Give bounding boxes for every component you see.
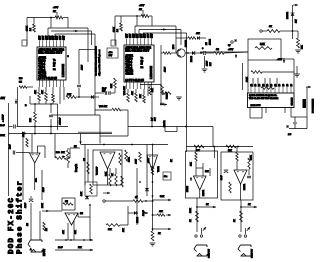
svg-text:12V: 12V — [296, 19, 298, 23]
svg-text:16V: 16V — [137, 33, 139, 38]
svg-text:4.7uF: 4.7uF — [207, 60, 209, 66]
svg-text:(8): (8) — [53, 63, 56, 65]
svg-text:x: x — [235, 40, 237, 42]
svg-text:22K: 22K — [191, 162, 193, 166]
svg-text:100K: 100K — [190, 208, 192, 213]
svg-text:16V: 16V — [109, 55, 113, 57]
svg-text:2 5: 2 5 — [288, 134, 292, 136]
svg-text:VDD CL RS SET VSS CL2 RS2: VDD CL RS SET VSS CL2 RS2 — [249, 98, 279, 100]
svg-text:1N914: 1N914 — [191, 55, 193, 62]
svg-text:1K: 1K — [158, 233, 161, 235]
svg-text:OTA-1: OTA-1 — [125, 61, 132, 64]
svg-text:16V: 16V — [155, 117, 157, 121]
svg-text:47K: 47K — [36, 178, 38, 182]
svg-text:V+: V+ — [141, 58, 144, 60]
svg-text:10uF: 10uF — [10, 144, 12, 149]
svg-text:+15V: +15V — [277, 59, 283, 61]
svg-text:.0068uF: .0068uF — [60, 117, 62, 125]
svg-text:+15V: +15V — [148, 158, 150, 163]
svg-text:LM13600N: LM13600N — [149, 66, 153, 79]
svg-text:AMP1 DIO1 AMP2 DIO2: AMP1 DIO1 AMP2 DIO2 — [38, 48, 64, 51]
svg-text:OTA-2: OTA-2 — [38, 68, 45, 71]
svg-text:4.7uF: 4.7uF — [25, 202, 27, 208]
svg-text:Depth: Depth — [74, 164, 78, 172]
svg-text:ABUF1: ABUF1 — [38, 57, 46, 60]
svg-text:10K: 10K — [140, 94, 142, 98]
svg-text:LM741: LM741 — [244, 183, 246, 190]
svg-text:47K: 47K — [75, 230, 77, 234]
svg-text:VR4 4.7K: VR4 4.7K — [124, 86, 126, 95]
svg-text:IN: IN — [141, 64, 144, 66]
svg-text:16V: 16V — [60, 35, 62, 40]
svg-text:OUTPUT: OUTPUT — [252, 248, 254, 258]
svg-text:INPUT: INPUT — [43, 248, 46, 256]
svg-text:1K: 1K — [139, 9, 142, 11]
svg-text:1K: 1K — [112, 173, 114, 176]
svg-text:1.5K: 1.5K — [67, 94, 72, 96]
svg-text:16V: 16V — [64, 35, 66, 40]
svg-text:16V: 16V — [134, 33, 136, 38]
svg-text:16: 16 — [259, 83, 261, 86]
svg-text:10K: 10K — [108, 229, 112, 231]
svg-text:2N5458: 2N5458 — [186, 39, 188, 47]
svg-text:A: A — [30, 248, 32, 251]
svg-text:47K: 47K — [132, 91, 134, 95]
svg-text:1K: 1K — [206, 204, 209, 206]
svg-text:INB1 OT1 INB2 OT2 V: INB1 OT1 INB2 OT2 V — [125, 50, 149, 52]
svg-text:22K: 22K — [30, 118, 32, 122]
svg-text:INTEN: INTEN — [187, 185, 189, 192]
svg-text:47K: 47K — [159, 211, 163, 213]
svg-text:10K: 10K — [302, 45, 304, 49]
svg-text:100K: 100K — [23, 132, 25, 137]
svg-text:B2: B2 — [141, 67, 144, 69]
svg-text:Q1 D1 CLK1 R1 S1 Q2 D2 CL: Q1 D1 CLK1 R1 S1 Q2 D2 CL — [249, 95, 278, 97]
svg-text:1 3 5 7 9 11 13 15: 1 3 5 7 9 11 13 15 — [38, 78, 57, 80]
svg-text:5.6K: 5.6K — [260, 44, 265, 46]
svg-text:LM741: LM741 — [203, 189, 205, 196]
svg-text:16: 16 — [279, 83, 281, 86]
svg-text:100K: 100K — [251, 155, 253, 160]
svg-text:GND12: GND12 — [125, 73, 133, 75]
svg-text:16V: 16V — [126, 33, 128, 38]
svg-text:13 11 9 7 5: 13 11 9 7 5 — [251, 105, 262, 107]
svg-text:MPS: MPS — [173, 44, 175, 49]
svg-text:16V: 16V — [152, 33, 154, 38]
svg-text:1M: 1M — [27, 223, 29, 226]
svg-text:(8): (8) — [141, 61, 144, 63]
svg-text:+15V: +15V — [139, 5, 145, 7]
svg-text:AMP1 DIO1 AMP2 DIO2: AMP1 DIO1 AMP2 DIO2 — [125, 46, 151, 49]
svg-text:16: 16 — [263, 83, 265, 86]
svg-text:LM13600N: LM13600N — [61, 64, 65, 77]
svg-text:47K: 47K — [35, 90, 37, 94]
svg-text:VB1-2: VB1-2 — [38, 66, 45, 68]
svg-text:16V: 16V — [144, 33, 146, 38]
svg-text:1N4742: 1N4742 — [287, 11, 289, 19]
svg-text:V+: V+ — [53, 60, 56, 62]
svg-text:16V: 16V — [210, 62, 212, 66]
svg-text:1K: 1K — [234, 219, 236, 222]
svg-text:100K: 100K — [0, 135, 5, 137]
svg-text:16: 16 — [275, 83, 277, 86]
svg-text:10uF: 10uF — [58, 247, 63, 249]
svg-text:+15V: +15V — [228, 49, 234, 51]
svg-text:VR1 10K: VR1 10K — [99, 106, 108, 108]
svg-text:DBUF2: DBUF2 — [125, 70, 133, 72]
svg-text:D5: D5 — [206, 42, 208, 45]
svg-text:ABUF1: ABUF1 — [125, 55, 133, 58]
svg-text:47K: 47K — [196, 33, 200, 35]
svg-text:1M: 1M — [46, 228, 48, 231]
svg-text:16: 16 — [267, 83, 269, 86]
svg-text:16: 16 — [291, 83, 293, 86]
svg-text:1M: 1M — [65, 201, 68, 203]
svg-text:B2: B2 — [53, 69, 56, 71]
svg-text:16: 16 — [271, 83, 273, 86]
svg-text:INB1 OT1 INB2 OT2 V: INB1 OT1 INB2 OT2 V — [38, 52, 62, 54]
svg-text:16V: 16V — [148, 33, 150, 38]
svg-text:1 3 5 7 9 11 13 15: 1 3 5 7 9 11 13 15 — [125, 80, 144, 82]
svg-text:1M: 1M — [216, 49, 219, 51]
svg-text:1.5K: 1.5K — [81, 191, 83, 196]
svg-text:-15V: -15V — [0, 98, 5, 100]
svg-text:CD4013: CD4013 — [292, 97, 294, 106]
svg-text:1.2: 1.2 — [30, 27, 32, 31]
svg-text:270K: 270K — [27, 26, 29, 31]
svg-text:47uF: 47uF — [43, 187, 45, 192]
svg-text:1K: 1K — [171, 159, 173, 162]
svg-text:3.3K: 3.3K — [111, 83, 113, 88]
svg-text:1M: 1M — [80, 213, 83, 215]
svg-text:16V: 16V — [130, 33, 132, 38]
svg-text:10uF: 10uF — [0, 125, 5, 127]
svg-text:1K: 1K — [135, 197, 138, 199]
svg-text:TL022CP: TL022CP — [97, 166, 99, 175]
svg-text:3.3K: 3.3K — [106, 171, 108, 176]
svg-text:16V: 16V — [46, 35, 48, 40]
svg-text:chips not the 13700 pin out: chips not the 13700 pin out — [98, 49, 101, 76]
svg-text:9V: 9V — [228, 45, 231, 47]
svg-text:16V: 16V — [57, 35, 59, 40]
svg-text:5.6K: 5.6K — [160, 196, 165, 198]
svg-text:+ 4.7uF: + 4.7uF — [3, 114, 5, 122]
svg-text:16V: 16V — [39, 35, 41, 40]
svg-text:560: 560 — [19, 78, 23, 80]
svg-text:4.7u: 4.7u — [109, 52, 113, 54]
svg-text:16V: 16V — [53, 35, 55, 40]
svg-text:10K: 10K — [152, 88, 154, 92]
svg-text:16V: 16V — [50, 35, 52, 40]
svg-text:1N914: 1N914 — [137, 216, 139, 223]
svg-text:DBIAS: DBIAS — [125, 58, 133, 61]
svg-text:+: + — [202, 48, 204, 50]
svg-text:100K: 100K — [129, 157, 131, 162]
svg-text:16: 16 — [283, 83, 285, 86]
svg-text:FOOTSWITCH: FOOTSWITCH — [313, 99, 315, 113]
svg-text:4.7uF: 4.7uF — [82, 64, 84, 70]
svg-text:16: 16 — [255, 83, 257, 86]
svg-text:47K: 47K — [42, 90, 44, 94]
svg-text:+15V: +15V — [53, 7, 59, 9]
svg-text:10uF: 10uF — [221, 175, 223, 180]
svg-text:.0047: .0047 — [136, 158, 138, 164]
svg-text:4.7uF: 4.7uF — [165, 66, 167, 72]
svg-text:1K: 1K — [53, 11, 56, 13]
svg-text:16V: 16V — [141, 33, 143, 38]
svg-text:DBIAS: DBIAS — [38, 60, 46, 63]
svg-text:DBUF2: DBUF2 — [38, 72, 46, 74]
svg-text:1K: 1K — [269, 26, 272, 28]
svg-text:270K: 270K — [114, 27, 116, 32]
svg-text:16: 16 — [287, 83, 289, 86]
svg-text:100K: 100K — [42, 203, 44, 208]
svg-text:5: 5 — [68, 56, 70, 58]
svg-text:VB1-2: VB1-2 — [125, 64, 132, 66]
svg-text:x: x — [287, 126, 289, 128]
svg-text:1K: 1K — [248, 204, 251, 206]
svg-text:10u: 10u — [164, 176, 167, 178]
svg-text:10K: 10K — [123, 228, 125, 232]
svg-text:DOD FX-20C: DOD FX-20C — [8, 197, 16, 254]
svg-text:D: D — [25, 105, 27, 107]
svg-text:10K: 10K — [61, 152, 65, 154]
svg-text:R33: R33 — [56, 152, 61, 154]
svg-text:47K: 47K — [63, 230, 65, 234]
svg-text:TL022: TL022 — [158, 165, 160, 172]
svg-text:1.2: 1.2 — [117, 28, 119, 32]
svg-text:16V: 16V — [43, 35, 45, 40]
svg-text:OTA-1: OTA-1 — [38, 63, 45, 66]
svg-text:10K: 10K — [205, 171, 209, 173]
svg-text:1N914: 1N914 — [210, 38, 212, 45]
svg-text:The FX20-C has two LM13600: The FX20-C has two LM13600 — [95, 45, 98, 76]
svg-text:1K: 1K — [190, 219, 192, 222]
svg-text:OTA-2: OTA-2 — [125, 66, 132, 69]
svg-text:OUTPUT: OUTPUT — [209, 248, 211, 258]
svg-text:IN: IN — [53, 66, 56, 68]
svg-text:Phase Shifter: Phase Shifter — [17, 181, 25, 254]
svg-text:1M: 1M — [84, 158, 86, 161]
svg-text:5%: 5% — [19, 82, 22, 84]
svg-text:16: 16 — [251, 83, 253, 86]
svg-text:10K: 10K — [78, 247, 82, 249]
